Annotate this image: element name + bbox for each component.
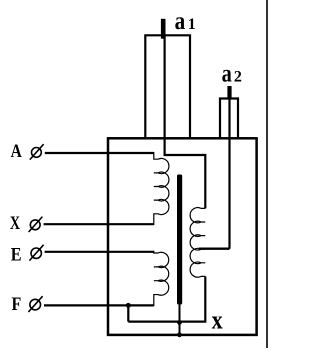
node x junction bbox=[177, 320, 182, 325]
secondary winding W3 (a1-a2-x) bbox=[190, 208, 205, 278]
svg-text:2: 2 bbox=[234, 68, 242, 85]
wire F bbox=[44, 304, 154, 306]
svg-text:A: A bbox=[11, 142, 23, 162]
bushing a1 bbox=[145, 35, 190, 138]
wire core / earth link to tank bottom bbox=[179, 304, 181, 335]
terminal a2 bar bbox=[227, 86, 231, 100]
terminal F circle bbox=[28, 296, 42, 312]
svg-text:X: X bbox=[10, 214, 21, 234]
svg-text:1: 1 bbox=[188, 16, 196, 33]
wire a1 lead: bushing conductor down, across, to secondary winding top bbox=[165, 36, 206, 208]
wire a2 lead: bushing conductor down to tap bbox=[228, 99, 230, 249]
page border (right rule) bbox=[266, 0, 268, 348]
wire E bbox=[45, 251, 154, 253]
label x bbox=[212, 306, 223, 335]
winding W2 (E-F) bbox=[154, 251, 169, 306]
tank / case box bbox=[108, 138, 257, 335]
bushing a2 bbox=[220, 99, 238, 139]
label A bbox=[11, 142, 23, 162]
label F bbox=[12, 295, 22, 315]
svg-text:x: x bbox=[212, 306, 223, 335]
svg-text:a: a bbox=[222, 61, 233, 88]
tap wire to secondary winding bbox=[199, 247, 230, 249]
terminal a1 bar bbox=[161, 19, 166, 39]
iron core bbox=[177, 175, 182, 305]
svg-text:E: E bbox=[11, 245, 22, 265]
junction on tank bottom bbox=[177, 332, 182, 337]
label X bbox=[10, 214, 21, 234]
label a1 bbox=[175, 8, 196, 35]
primary winding W1 (A-X) bbox=[154, 152, 169, 225]
wire secondary bottom lead to node x bbox=[128, 276, 205, 321]
terminal E circle bbox=[29, 245, 43, 261]
wire A bbox=[45, 152, 154, 154]
svg-text:F: F bbox=[12, 295, 22, 315]
label E bbox=[11, 245, 22, 265]
terminal A circle bbox=[30, 144, 44, 159]
junction F branch bbox=[126, 303, 131, 308]
svg-text:a: a bbox=[175, 8, 186, 35]
terminal X circle bbox=[29, 217, 43, 232]
wire X bbox=[44, 223, 154, 225]
wire F branch down to node x bbox=[127, 305, 129, 321]
label a2 bbox=[222, 61, 242, 88]
